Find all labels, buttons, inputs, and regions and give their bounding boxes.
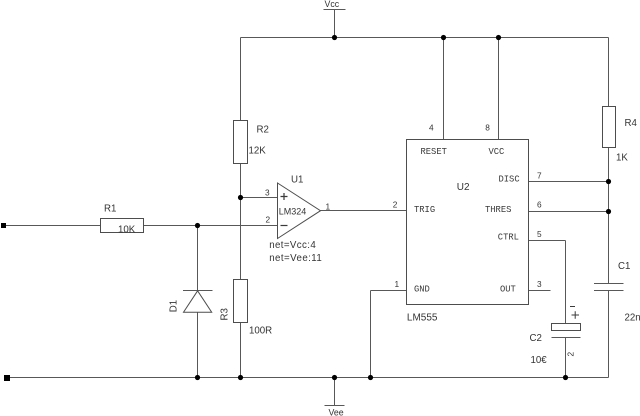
svg-text:2: 2	[566, 352, 576, 357]
svg-text:net=Vee:11: net=Vee:11	[269, 253, 322, 264]
svg-text:1: 1	[326, 202, 331, 212]
svg-text:DISC: DISC	[499, 175, 520, 185]
svg-text:10€: 10€	[531, 355, 548, 366]
svg-text:OUT: OUT	[500, 285, 516, 295]
svg-text:C1: C1	[618, 261, 630, 272]
svg-text:TRIG: TRIG	[414, 205, 435, 215]
svg-text:U2: U2	[457, 182, 470, 193]
svg-text:R3: R3	[220, 308, 231, 320]
svg-text:3: 3	[537, 279, 542, 289]
svg-text:net=Vcc:4: net=Vcc:4	[269, 240, 316, 251]
svg-text:2: 2	[266, 215, 271, 225]
svg-text:R4: R4	[625, 118, 638, 129]
svg-text:R2: R2	[257, 124, 269, 135]
svg-text:6: 6	[537, 200, 542, 210]
svg-text:2: 2	[393, 199, 398, 209]
svg-text:100R: 100R	[249, 326, 272, 337]
svg-text:RESET: RESET	[421, 147, 447, 157]
svg-text:U1: U1	[291, 175, 303, 186]
svg-text:1K: 1K	[616, 153, 628, 164]
svg-text:3: 3	[265, 187, 270, 197]
svg-text:GND: GND	[414, 285, 430, 295]
svg-text:8: 8	[485, 122, 490, 132]
svg-text:22n: 22n	[625, 313, 640, 324]
svg-text:VCC: VCC	[489, 147, 505, 157]
svg-text:C2: C2	[530, 333, 542, 344]
svg-text:Vcc: Vcc	[325, 0, 340, 9]
svg-text:LM324: LM324	[279, 207, 307, 217]
svg-text:4: 4	[429, 122, 434, 132]
svg-text:12K: 12K	[249, 146, 267, 157]
svg-text:10K: 10K	[118, 225, 136, 236]
svg-text:R1: R1	[104, 204, 116, 215]
svg-text:7: 7	[537, 170, 542, 180]
svg-text:1: 1	[395, 279, 400, 289]
svg-text:Vee: Vee	[329, 408, 344, 416]
svg-text:5: 5	[537, 229, 542, 239]
svg-text:CTRL: CTRL	[498, 233, 519, 243]
svg-text:LM555: LM555	[407, 312, 438, 323]
svg-text:D1: D1	[169, 300, 180, 312]
svg-text:THRES: THRES	[485, 205, 511, 215]
